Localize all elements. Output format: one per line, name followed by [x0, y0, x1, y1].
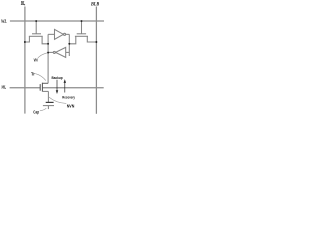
transistor M2 gate bar [77, 33, 86, 35]
label BL subscript mark [24, 3, 25, 6]
transistor M2 channel bar [75, 35, 88, 37]
transistor M2 source leg wire to BLB [87, 36, 96, 42]
transistor M1 drain leg wire to VN [42, 36, 48, 44]
recovery arrow [64, 82, 66, 92]
label ML subscript mark [4, 87, 7, 90]
label Cap pointer arc [40, 108, 47, 111]
svg-text:Tr: Tr [31, 71, 35, 77]
transistor M1 channel bar [29, 35, 43, 37]
svg-text:WL: WL [1, 20, 7, 25]
svg-text:Backup: Backup [52, 76, 64, 80]
label NVN pointer arc [49, 97, 67, 103]
inverter U1 bubble [64, 33, 66, 35]
label VN pointer arc [38, 53, 47, 58]
inverter U2 input wire [66, 51, 70, 53]
junction dot BLB tap [95, 41, 97, 43]
node NVN lead to capacitor [47, 91, 49, 102]
transistor M1 source leg wire to BL [25, 36, 30, 42]
transistor M1 gate lead wire [35, 21, 37, 34]
word line WL [10, 20, 104, 22]
bit line BLB [95, 7, 97, 114]
transistor Tr drain jog wire [42, 82, 48, 84]
transistor Tr channel bar [41, 83, 43, 92]
junction dot WL-gate M2 [81, 20, 83, 22]
node VNB vertical wire [68, 34, 70, 56]
inverter U1 input wire [48, 33, 54, 35]
transistor M2 gate lead wire [81, 21, 83, 34]
backup arrow [56, 80, 58, 91]
capacitor Cap bottom plate [43, 105, 54, 107]
inverter U1 output wire [66, 33, 70, 35]
junction dot VNB [68, 43, 70, 45]
svg-text:NVN: NVN [67, 103, 75, 108]
transistor M1 gate bar [32, 33, 41, 35]
transistor Tr source jog wire [42, 90, 48, 92]
junction dot WL-gate M1 [35, 20, 37, 22]
merge line ML [10, 87, 41, 89]
node VN vertical wire [47, 34, 49, 83]
transistor Tr gate bar [39, 84, 41, 91]
plate line right of Tr [42, 87, 103, 89]
capacitor Cap bottom lead wire [47, 106, 49, 110]
svg-text:Recovery: Recovery [62, 95, 75, 99]
transistor M2 drain leg wire to VNB [69, 36, 76, 44]
inverter U2 output wire [48, 51, 53, 53]
label Tr pointer arc [35, 74, 46, 81]
svg-text:BLB: BLB [90, 1, 99, 7]
inverter U1 triangle [55, 29, 64, 39]
junction dot BL tap [24, 41, 26, 43]
bit line BL [24, 7, 26, 114]
svg-text:ML: ML [1, 85, 7, 90]
junction dot VN upper [47, 43, 49, 45]
svg-text:BL: BL [20, 1, 25, 7]
inverter U2 bubble [53, 51, 55, 53]
capacitor Cap top plate [46, 101, 54, 103]
inverter U2 triangle [56, 47, 66, 57]
svg-text:VN: VN [34, 57, 38, 62]
svg-text:Cap: Cap [33, 110, 39, 115]
junction dot VN lower [47, 52, 49, 54]
